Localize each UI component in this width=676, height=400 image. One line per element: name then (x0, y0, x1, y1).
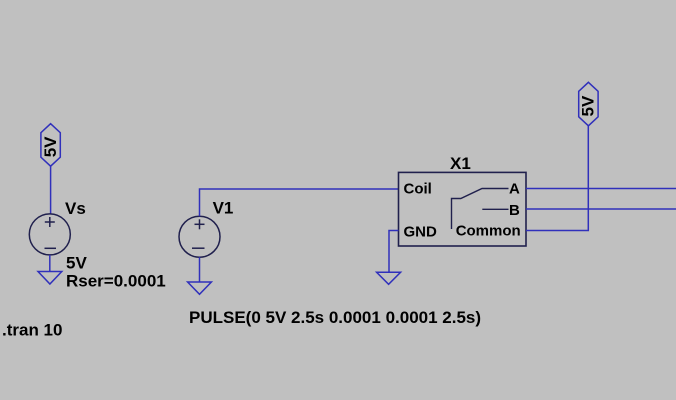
svg-text:5V: 5V (579, 95, 598, 116)
svg-text:GND: GND (404, 224, 438, 241)
wire (526, 126, 588, 231)
svg-text:V1: V1 (213, 198, 234, 217)
ground (38, 272, 62, 285)
svg-text:5V: 5V (41, 136, 60, 157)
svg-text:Common: Common (456, 223, 521, 240)
wire (200, 189, 399, 216)
wire (50, 166, 52, 214)
ground (188, 282, 212, 294)
svg-text:Coil: Coil (404, 181, 432, 198)
switch symbol inside X1 (452, 189, 509, 230)
ground (377, 272, 401, 284)
svg-text:B: B (509, 202, 520, 219)
svg-text:Rser=0.0001: Rser=0.0001 (66, 272, 166, 291)
svg-text:PULSE(0 5V 2.5s 0.0001 0.0001: PULSE(0 5V 2.5s 0.0001 0.0001 2.5s) (189, 308, 481, 327)
svg-text:.tran 10: .tran 10 (2, 321, 62, 340)
svg-text:X1: X1 (450, 154, 471, 173)
voltage source V1 (179, 216, 220, 257)
net flag 5V (right) (579, 82, 599, 126)
wire (526, 188, 676, 190)
svg-text:5V: 5V (66, 254, 87, 273)
wire (526, 208, 676, 210)
wire (199, 257, 201, 282)
relay box U=X1 (399, 172, 527, 246)
wire (389, 231, 399, 273)
voltage source Vs (29, 214, 70, 255)
wire (49, 255, 51, 272)
net flag 5V (left) (41, 124, 60, 167)
svg-text:Vs: Vs (65, 199, 86, 218)
svg-text:A: A (509, 181, 520, 198)
